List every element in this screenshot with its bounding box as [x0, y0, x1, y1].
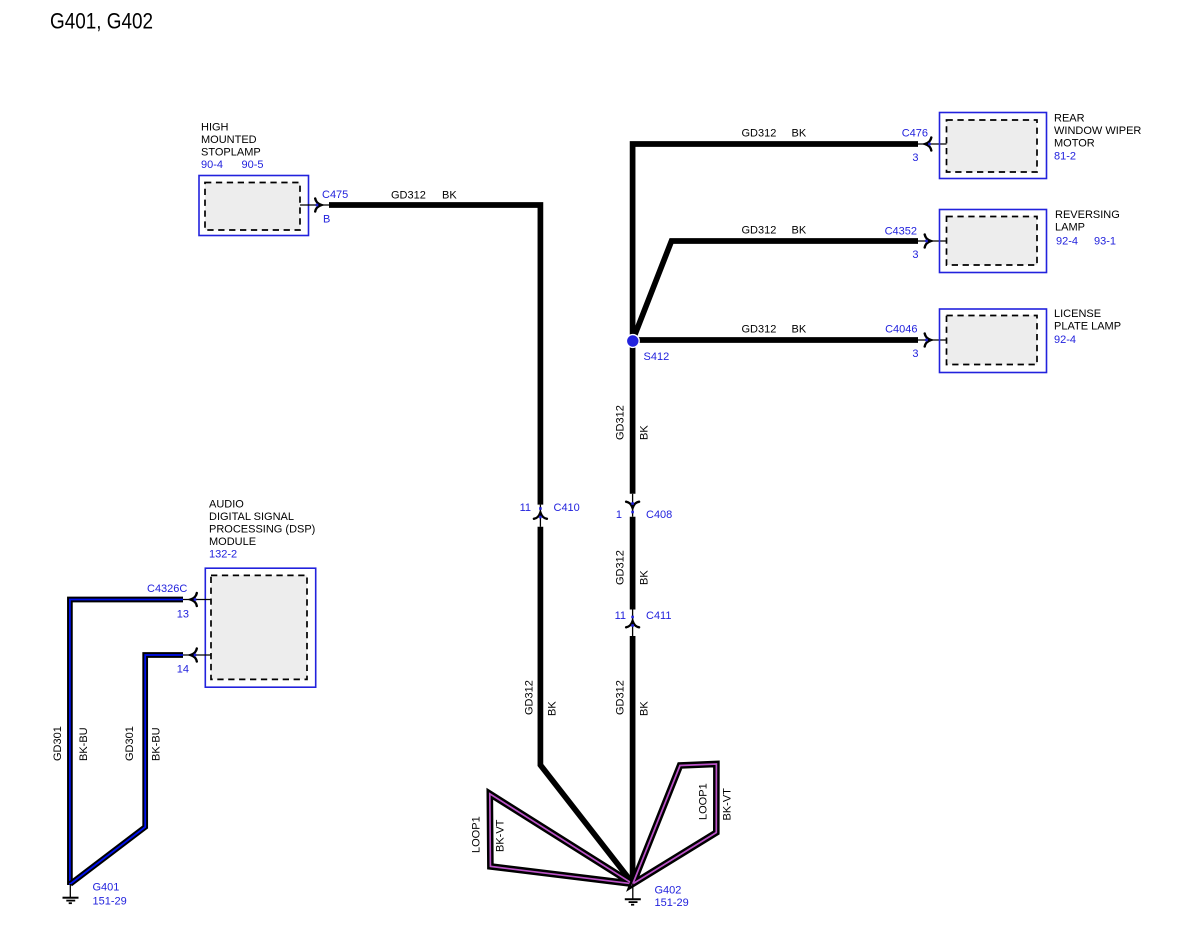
- wire GD312 BK from C411 to ground G402: [630, 636, 636, 884]
- svg-text:GD312: GD312: [524, 680, 536, 715]
- svg-text:DIGITAL SIGNAL: DIGITAL SIGNAL: [209, 511, 294, 523]
- label LOOP1 BK-VT (left): [471, 816, 507, 853]
- label C4046 pin 3: [885, 324, 918, 361]
- svg-text:WINDOW WIPER: WINDOW WIPER: [1054, 125, 1141, 137]
- component REAR WINDOW WIPER MOTOR: [940, 113, 1047, 179]
- label GD312 BK (license horizontal): [742, 324, 807, 336]
- connector C475 pin B: [300, 199, 329, 212]
- svg-text:92-4: 92-4: [1054, 334, 1076, 346]
- label C4326C pin 14: [177, 664, 189, 676]
- svg-text:BK: BK: [639, 701, 651, 716]
- svg-text:BK-BU: BK-BU: [151, 727, 163, 761]
- svg-text:MOUNTED: MOUNTED: [201, 134, 257, 146]
- svg-text:C411: C411: [646, 610, 671, 622]
- label HIGH MOUNTED STOPLAMP 90-4 90-5: [201, 122, 264, 172]
- svg-text:HIGH: HIGH: [201, 122, 229, 134]
- svg-text:132-2: 132-2: [209, 549, 237, 561]
- label GD312 BK (C475 horizontal): [391, 190, 457, 202]
- label LICENSE PLATE LAMP 92-4: [1054, 308, 1121, 346]
- connector C476 pin 3: [918, 138, 947, 151]
- loop LOOP1 BK-VT (left): [490, 794, 633, 884]
- wire GD301 BK-BU pin14 to ground G401: [70, 655, 183, 884]
- component REVERSING LAMP: [940, 210, 1047, 273]
- label GD301 BK-BU (outer): [52, 726, 90, 761]
- svg-text:GD312: GD312: [615, 680, 627, 715]
- svg-text:11: 11: [520, 502, 531, 514]
- label GD312 BK (C408-C411 vertical): [615, 550, 651, 585]
- wire GD312 BK from C408 to C411: [630, 517, 636, 610]
- svg-text:REAR: REAR: [1054, 113, 1085, 125]
- svg-text:LOOP1: LOOP1: [471, 816, 483, 853]
- loop LOOP1 BK-VT (right): [633, 764, 717, 884]
- svg-text:GD312: GD312: [615, 405, 627, 440]
- svg-text:BK-VT: BK-VT: [495, 819, 507, 852]
- svg-text:GD312: GD312: [742, 128, 777, 140]
- wire GD312 BK from C475 (upper segment to C410): [329, 205, 540, 505]
- svg-text:13: 13: [177, 609, 189, 621]
- svg-text:GD312: GD312: [742, 324, 777, 336]
- label LOOP1 BK-VT (right): [698, 783, 734, 820]
- svg-text:BK: BK: [792, 225, 807, 237]
- svg-text:BK: BK: [547, 701, 559, 716]
- label GD312 BK (reversing horizontal): [742, 225, 807, 237]
- label C410 pin 11: [520, 502, 580, 514]
- svg-text:GD312: GD312: [742, 225, 777, 237]
- connector C4326C pin 13: [183, 593, 211, 606]
- svg-text:REVERSING: REVERSING: [1055, 209, 1120, 221]
- svg-text:BK-BU: BK-BU: [78, 727, 90, 761]
- svg-text:90-4: 90-4: [201, 159, 223, 171]
- connector C4046 pin 3: [918, 334, 947, 347]
- svg-text:MODULE: MODULE: [209, 536, 256, 548]
- wire GD301 BK-BU pin13 to ground G401: [70, 600, 183, 886]
- component LICENSE PLATE LAMP: [940, 309, 1047, 373]
- connector C411 pin 11: [626, 610, 639, 637]
- svg-text:151-29: 151-29: [93, 896, 127, 908]
- label REVERSING LAMP 92-4 93-1: [1055, 209, 1120, 248]
- label C4326C pin 13: [147, 583, 189, 621]
- svg-text:STOPLAMP: STOPLAMP: [201, 147, 261, 159]
- label C411 pin 11: [615, 610, 672, 622]
- svg-text:GD301: GD301: [124, 726, 136, 761]
- label AUDIO DIGITAL SIGNAL PROCESSING (DSP) MODULE 132-2: [209, 499, 315, 561]
- svg-text:C410: C410: [554, 502, 580, 514]
- wire GD312 BK from S412 to C4352: [633, 241, 918, 339]
- svg-text:GD301: GD301: [52, 726, 64, 761]
- svg-text:LICENSE: LICENSE: [1054, 308, 1101, 320]
- svg-text:LAMP: LAMP: [1055, 222, 1085, 234]
- splice S412: [626, 335, 639, 348]
- label GD312 BK (lower middle vertical): [615, 680, 651, 716]
- svg-text:G401: G401: [93, 882, 120, 894]
- label GD312 BK (left vertical): [524, 680, 559, 716]
- connector C4326C pin 14: [183, 649, 211, 662]
- svg-text:BK-VT: BK-VT: [722, 788, 734, 821]
- svg-text:GD312: GD312: [391, 190, 426, 202]
- svg-text:LOOP1: LOOP1: [698, 783, 710, 820]
- svg-text:3: 3: [912, 152, 918, 164]
- ground G401: [63, 884, 79, 903]
- component AUDIO DSP MODULE: [205, 568, 315, 687]
- svg-text:3: 3: [912, 348, 918, 360]
- svg-text:90-5: 90-5: [242, 159, 264, 171]
- svg-text:AUDIO: AUDIO: [209, 499, 244, 511]
- svg-text:BK: BK: [792, 128, 807, 140]
- label S412: [644, 351, 670, 363]
- svg-text:PROCESSING (DSP): PROCESSING (DSP): [209, 524, 315, 536]
- wire GD312 BK from C410 down to ground G402: [540, 527, 632, 884]
- svg-text:C475: C475: [322, 189, 348, 201]
- component HIGH MOUNTED STOPLAMP: [199, 176, 309, 236]
- connector C4352 pin 3: [918, 235, 947, 248]
- ground G402: [625, 884, 641, 905]
- label C475 pin B: [322, 189, 348, 226]
- svg-text:B: B: [323, 214, 330, 226]
- svg-text:C408: C408: [646, 509, 672, 521]
- svg-text:11: 11: [615, 610, 626, 622]
- svg-text:151-29: 151-29: [655, 897, 689, 909]
- wire GD312 BK from C476 to S412 and down to C408: [633, 144, 918, 494]
- svg-text:3: 3: [912, 249, 918, 261]
- svg-text:81-2: 81-2: [1054, 151, 1076, 163]
- svg-text:G402: G402: [655, 885, 682, 897]
- svg-text:MOTOR: MOTOR: [1054, 138, 1095, 150]
- svg-text:BK: BK: [442, 190, 457, 202]
- label GD312 BK (S412 to C408 vertical): [615, 405, 651, 440]
- connector C408 pin 1: [626, 494, 639, 517]
- label REAR WINDOW WIPER MOTOR 81-2: [1054, 113, 1141, 163]
- wire GD312 BK from S412 to C4046: [633, 337, 918, 343]
- svg-text:93-1: 93-1: [1094, 236, 1116, 248]
- label G402 151-29: [655, 885, 689, 910]
- label C408 pin 1: [616, 509, 672, 521]
- svg-text:C4352: C4352: [885, 226, 917, 238]
- title G401, G402: [50, 9, 153, 34]
- label C4352 pin 3: [885, 226, 919, 262]
- svg-text:14: 14: [177, 664, 189, 676]
- svg-text:1: 1: [616, 509, 622, 521]
- label GD301 BK-BU (inner): [124, 726, 163, 761]
- svg-text:C476: C476: [902, 128, 928, 140]
- svg-text:C4326C: C4326C: [147, 583, 187, 595]
- connector C410 pin 11: [534, 505, 547, 527]
- label G401 151-29: [93, 882, 127, 908]
- svg-text:S412: S412: [644, 351, 670, 363]
- svg-text:BK: BK: [639, 425, 651, 440]
- label GD312 BK (wiper horizontal): [742, 128, 807, 140]
- svg-text:C4046: C4046: [885, 324, 917, 336]
- svg-text:PLATE LAMP: PLATE LAMP: [1054, 321, 1121, 333]
- svg-text:BK: BK: [792, 324, 807, 336]
- svg-text:G401, G402: G401, G402: [50, 9, 153, 34]
- svg-text:92-4: 92-4: [1056, 236, 1078, 248]
- svg-text:GD312: GD312: [615, 550, 627, 585]
- svg-text:BK: BK: [639, 570, 651, 585]
- label C476 pin 3: [902, 128, 928, 165]
